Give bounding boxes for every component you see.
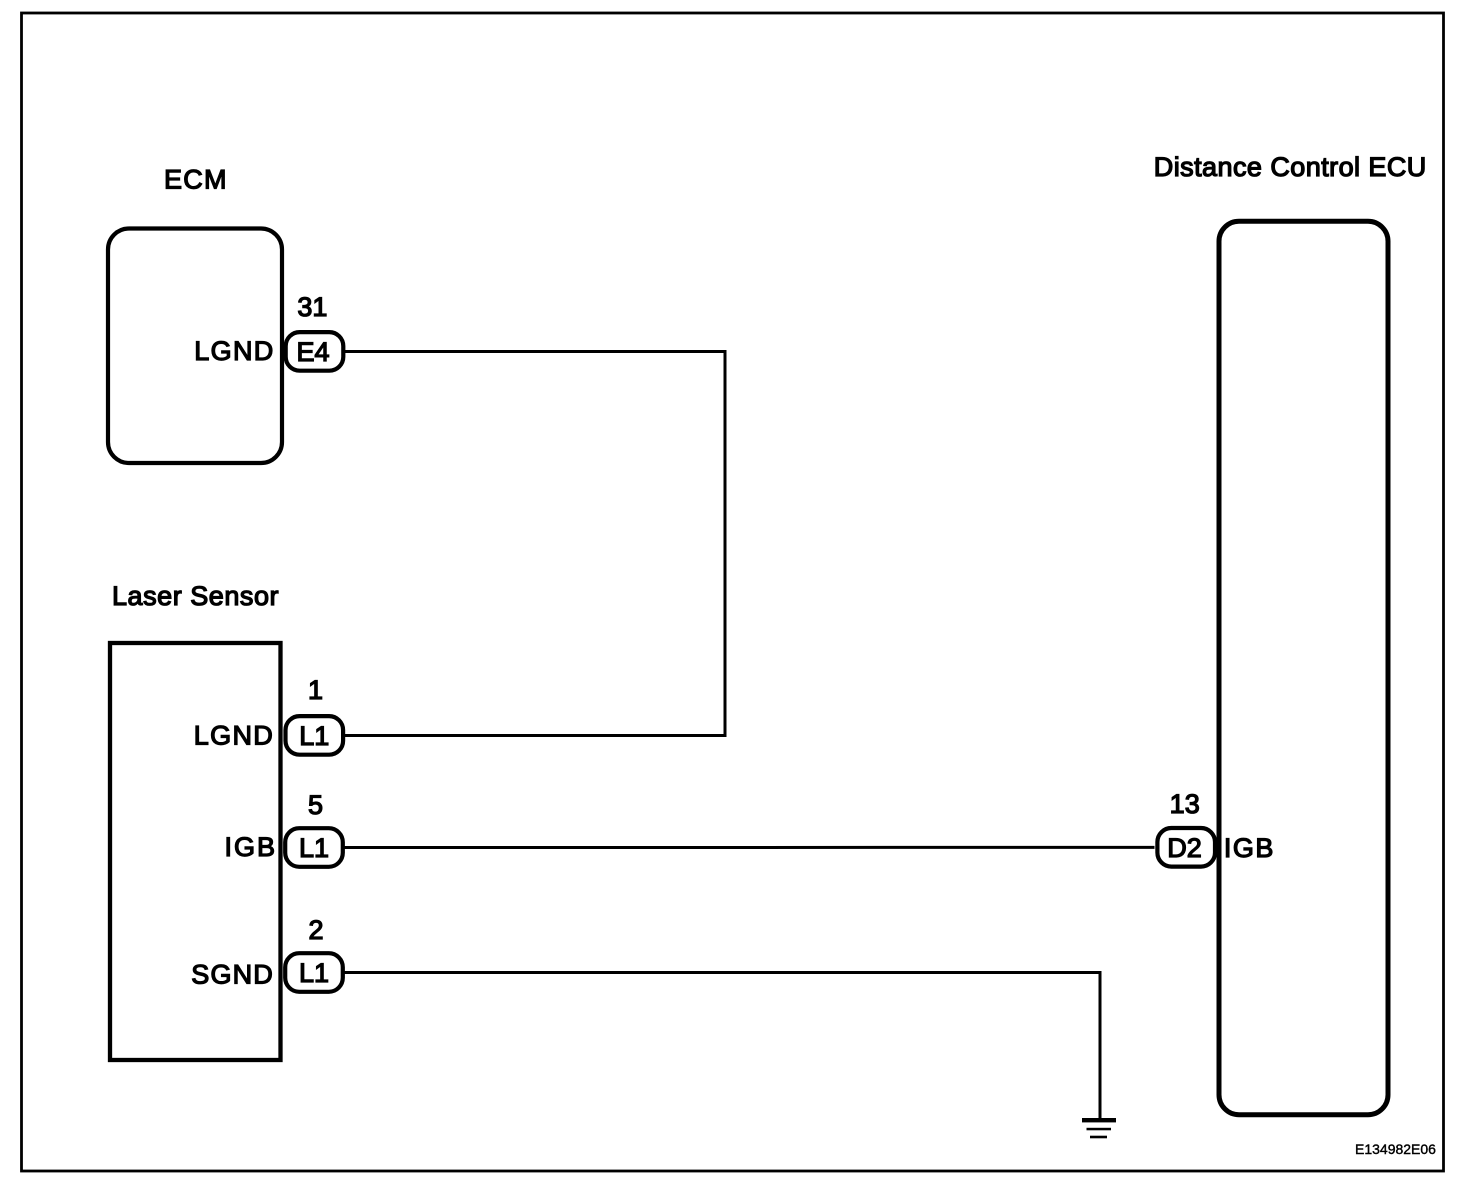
pin label IGB (Laser Sensor): [225, 832, 276, 862]
Distance Control ECU box: [1219, 221, 1388, 1114]
svg-text:13: 13: [1170, 789, 1200, 819]
pin number 5: [308, 790, 323, 820]
connector D2 pin 13: [1157, 828, 1215, 867]
svg-text:IGB: IGB: [1224, 833, 1274, 863]
pin number 2: [308, 915, 323, 945]
pin number 31: [297, 292, 327, 322]
pin number 1: [308, 675, 323, 705]
connector L1 pin 1: [286, 716, 344, 755]
wire L1 pin2 to ground (SGND net): [345, 973, 1101, 1119]
pin label IGB (Distance Control ECU): [1224, 833, 1274, 863]
pin label LGND (ECM): [194, 336, 273, 366]
svg-text:LGND: LGND: [194, 721, 273, 751]
svg-text:D2: D2: [1167, 833, 1202, 863]
pin label LGND (Laser Sensor): [194, 721, 273, 751]
Laser Sensor box: [110, 643, 281, 1060]
Distance Control ECU label: [1154, 152, 1427, 182]
pin label SGND (Laser Sensor): [191, 960, 273, 990]
svg-text:1: 1: [308, 675, 323, 705]
ECM box U1: [108, 229, 282, 464]
svg-text:Laser Sensor: Laser Sensor: [112, 581, 279, 611]
pin number 13: [1170, 789, 1200, 819]
svg-text:E134982E06: E134982E06: [1355, 1141, 1436, 1157]
connector L1 pin 5: [285, 828, 343, 867]
svg-text:SGND: SGND: [191, 960, 273, 990]
svg-text:L1: L1: [299, 833, 329, 863]
figure ID E134982E06: [1355, 1141, 1436, 1157]
svg-text:LGND: LGND: [194, 336, 273, 366]
wire E4 pin31 to L1 pin1 (LGND net): [344, 352, 725, 736]
svg-text:31: 31: [297, 292, 327, 322]
svg-text:2: 2: [308, 915, 323, 945]
svg-text:L1: L1: [299, 958, 329, 988]
ground symbol: [1082, 1118, 1116, 1138]
ECM label: [164, 165, 227, 195]
svg-text:E4: E4: [296, 337, 329, 367]
svg-text:ECM: ECM: [164, 165, 227, 195]
svg-text:Distance Control ECU: Distance Control ECU: [1154, 152, 1427, 182]
wire L1 pin5 to D2 pin13 (IGB net): [345, 846, 1155, 849]
connector E4 pin 31: [286, 332, 344, 371]
svg-text:5: 5: [308, 790, 323, 820]
svg-text:L1: L1: [299, 721, 329, 751]
connector L1 pin 2: [285, 953, 343, 992]
Laser Sensor label: [112, 581, 279, 611]
